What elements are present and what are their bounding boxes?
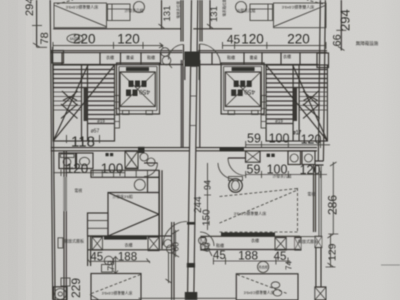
svg-text:3'6x6'2標準雙人床: 3'6x6'2標準雙人床 [282, 4, 314, 10]
svg-text:244: 244 [193, 196, 204, 213]
svg-text:3'6x6'2標準雙人床: 3'6x6'2標準雙人床 [234, 210, 266, 216]
svg-text:74: 74 [285, 261, 294, 270]
svg-text:131: 131 [162, 6, 173, 22]
svg-text:3'6x6'2標準雙人床: 3'6x6'2標準雙人床 [244, 290, 275, 295]
svg-text:書桌: 書桌 [126, 54, 134, 60]
svg-text:188: 188 [238, 249, 258, 263]
svg-text:沙發茶几組: 沙發茶几組 [273, 174, 292, 179]
svg-text:294: 294 [338, 9, 353, 31]
svg-text:3'6x6'2標準雙人床: 3'6x6'2標準雙人床 [102, 291, 133, 296]
svg-text:220: 220 [287, 32, 310, 47]
svg-text:衣櫃: 衣櫃 [251, 237, 259, 243]
svg-text:衣櫃: 衣櫃 [283, 53, 291, 59]
svg-text:120: 120 [241, 32, 264, 47]
svg-text:59: 59 [247, 132, 261, 146]
svg-text:ø60A: ø60A [65, 167, 74, 171]
svg-text:ø17: ø17 [293, 130, 302, 136]
svg-text:電梯井位置: 電梯井位置 [176, 1, 181, 19]
svg-text:開放式層板: 開放式層板 [64, 238, 84, 244]
svg-text:沙發床3'6組: 沙發床3'6組 [113, 194, 133, 199]
svg-text:無障礙設施: 無障礙設施 [356, 40, 379, 47]
svg-text:129: 129 [327, 243, 339, 261]
svg-text:鞋櫃: 鞋櫃 [147, 54, 155, 60]
svg-text:286: 286 [326, 195, 340, 215]
svg-text:吊衣桿: 吊衣桿 [258, 265, 268, 270]
svg-text:6A迴路: 6A迴路 [70, 36, 81, 41]
svg-text:120: 120 [117, 32, 140, 47]
svg-text:鞋櫃: 鞋櫃 [216, 242, 224, 248]
svg-text:書桌: 書桌 [250, 54, 258, 60]
svg-text:450: 450 [139, 88, 150, 95]
svg-text:衣櫃: 衣櫃 [106, 54, 114, 60]
svg-text:ø19: ø19 [97, 119, 105, 124]
svg-text:100: 100 [269, 132, 290, 146]
svg-text:沙發茶几組: 沙發茶几組 [125, 8, 144, 13]
svg-text:66: 66 [332, 34, 344, 46]
svg-text:45: 45 [213, 250, 226, 262]
svg-text:78: 78 [39, 32, 51, 44]
svg-text:450: 450 [244, 88, 255, 95]
svg-text:294: 294 [24, 0, 36, 16]
svg-text:電表箱位置: 電表箱位置 [222, 0, 227, 17]
svg-text:電視: 電視 [308, 192, 316, 197]
svg-text:ø19: ø19 [275, 119, 283, 124]
svg-text:電視: 電視 [75, 188, 83, 193]
svg-text:3'6x6'2標準雙人床: 3'6x6'2標準雙人床 [66, 4, 98, 10]
svg-text:131: 131 [209, 6, 220, 22]
svg-text:衣櫃: 衣櫃 [125, 242, 133, 248]
svg-text:ø57: ø57 [91, 129, 100, 135]
svg-text:100: 100 [101, 161, 124, 176]
svg-text:45: 45 [227, 33, 241, 47]
svg-text:229: 229 [69, 278, 83, 298]
svg-text:鞋櫃: 鞋櫃 [227, 54, 235, 60]
svg-text:沙發茶几組: 沙發茶几組 [237, 8, 256, 13]
